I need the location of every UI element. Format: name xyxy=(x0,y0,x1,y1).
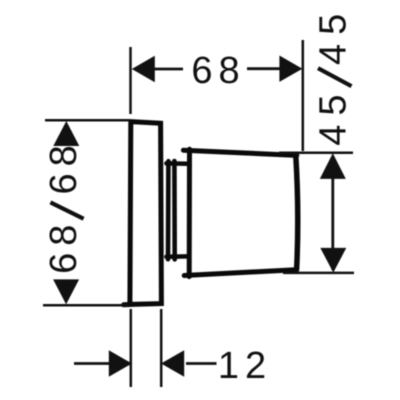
dimension 68/68 (left) xyxy=(43,120,129,305)
knob xyxy=(183,149,297,276)
svg-text:68: 68 xyxy=(191,50,245,92)
dimension 45/45 (right) xyxy=(279,153,354,273)
svg-text:68: 68 xyxy=(43,218,85,274)
svg-text:45: 45 xyxy=(313,5,355,65)
svg-text:68: 68 xyxy=(43,138,85,194)
escutcheon plate outline xyxy=(124,122,162,305)
stem xyxy=(166,161,187,259)
dimension 12 (bottom) xyxy=(74,309,217,387)
svg-text:12: 12 xyxy=(218,345,272,387)
svg-text:45: 45 xyxy=(313,85,355,145)
dimension 68 (top) xyxy=(131,40,303,151)
